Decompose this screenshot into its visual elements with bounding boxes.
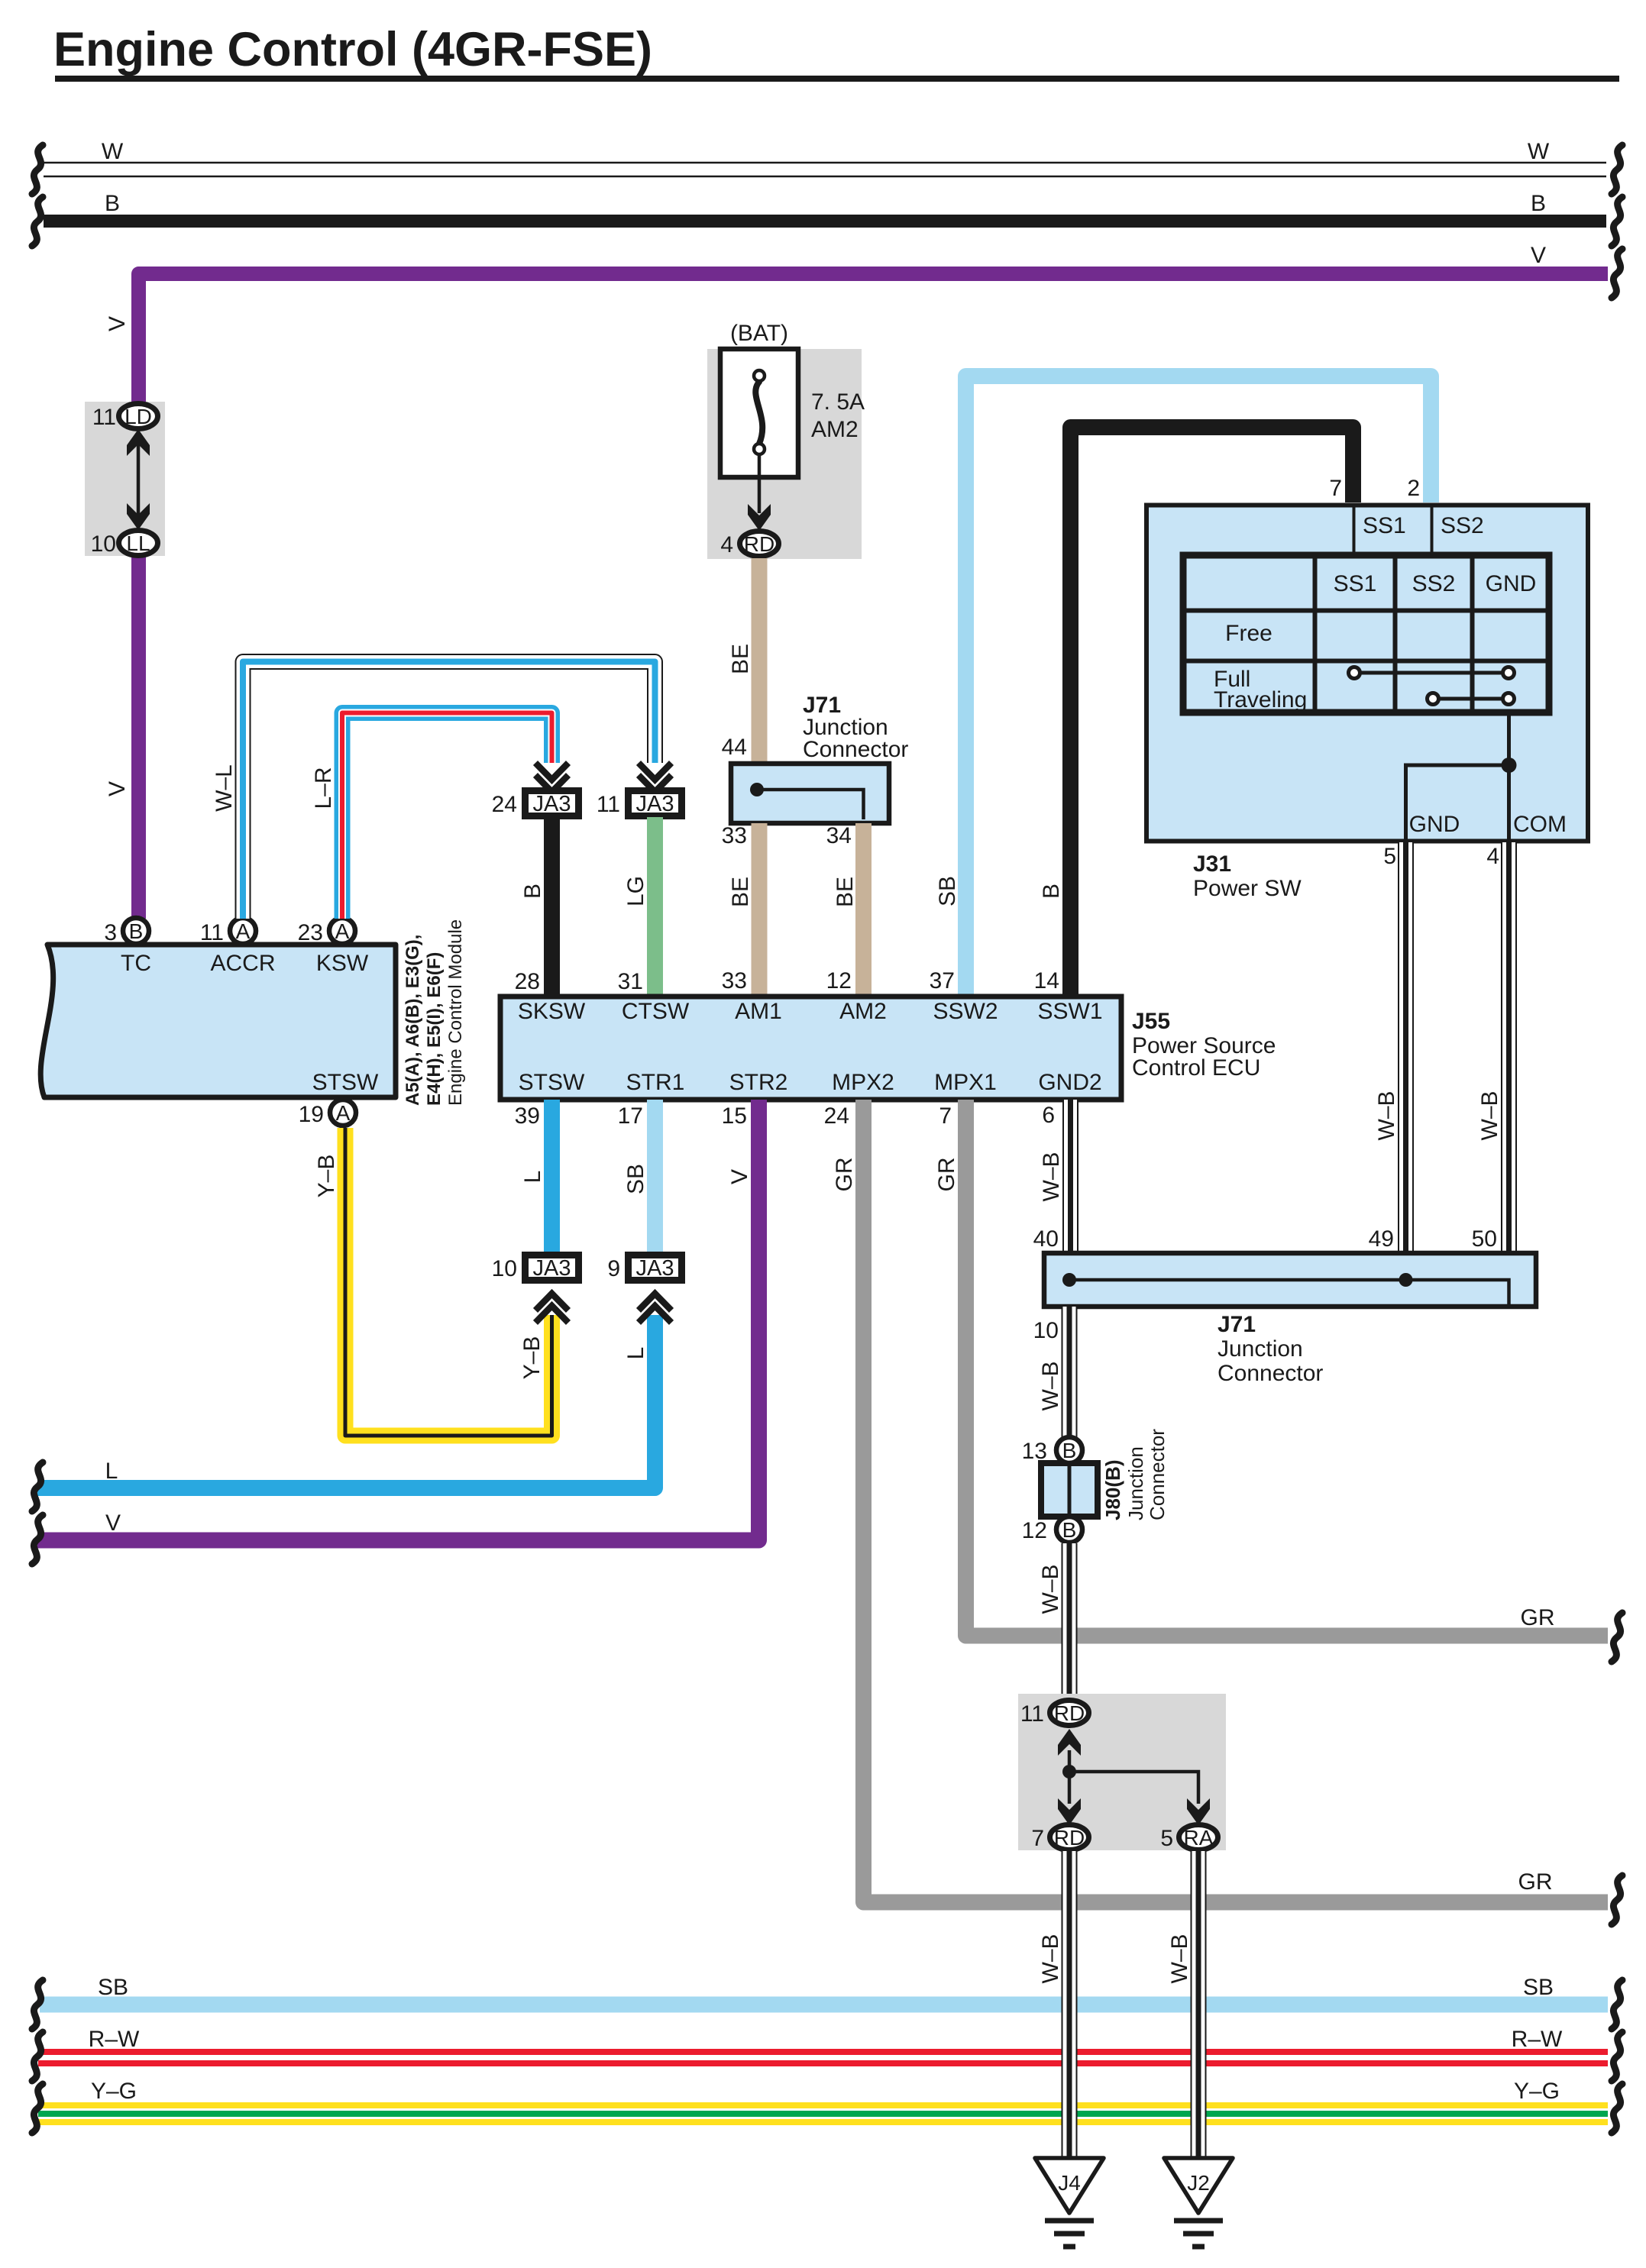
- svg-text:11: 11: [597, 792, 620, 817]
- svg-text:2: 2: [1407, 476, 1420, 501]
- svg-text:Connector: Connector: [1218, 1361, 1323, 1386]
- pin 3 B (TC): [104, 918, 149, 945]
- fuse AM2 symbol: [720, 349, 798, 477]
- wire + arrow from fuse to 4 RD: [748, 455, 771, 531]
- svg-text:RD: RD: [1054, 1701, 1085, 1725]
- wire L-R (blue/red from KSW to 24 JA3): [311, 713, 552, 919]
- svg-text:KSW: KSW: [316, 951, 369, 976]
- svg-text:TC: TC: [121, 951, 151, 976]
- svg-text:23: 23: [298, 920, 323, 945]
- svg-text:Junction: Junction: [1124, 1446, 1147, 1520]
- svg-text:GND2: GND2: [1038, 1070, 1101, 1095]
- title Engine Control (4GR-FSE): [53, 23, 1619, 82]
- svg-text:STR1: STR1: [626, 1070, 685, 1095]
- svg-text:4: 4: [1486, 844, 1499, 869]
- svg-text:A: A: [336, 1101, 351, 1125]
- svg-text:J71: J71: [1218, 1312, 1256, 1337]
- svg-text:Connector: Connector: [803, 737, 908, 762]
- arrow chevrons into 9 JA3: [639, 1294, 671, 1323]
- svg-text:10: 10: [1033, 1318, 1059, 1343]
- wire V (violet from J55 STR2 down and left): [32, 1100, 759, 1564]
- fuse 7.5A AM2 shaded panel: [707, 321, 865, 559]
- svg-text:Control ECU: Control ECU: [1132, 1055, 1260, 1081]
- ECU J55 Power Source Control box: [500, 997, 1276, 1100]
- svg-text:7: 7: [939, 1103, 952, 1129]
- svg-text:44: 44: [722, 735, 747, 760]
- svg-text:SS1: SS1: [1334, 571, 1377, 596]
- svg-text:SB: SB: [98, 1975, 128, 2000]
- svg-text:L: L: [623, 1347, 648, 1360]
- svg-text:B: B: [520, 884, 545, 899]
- svg-text:RD: RD: [744, 532, 774, 556]
- svg-text:CTSW: CTSW: [622, 999, 690, 1024]
- svg-text:10: 10: [492, 1256, 517, 1281]
- svg-text:W–L: W–L: [212, 764, 237, 812]
- svg-text:W–B: W–B: [1374, 1090, 1399, 1140]
- svg-text:SSW2: SSW2: [933, 999, 998, 1024]
- junction connector J80(B): [1041, 1429, 1169, 1520]
- svg-text:B: B: [105, 191, 120, 216]
- svg-text:A: A: [236, 919, 251, 943]
- svg-text:A: A: [335, 919, 350, 943]
- svg-text:JA3: JA3: [636, 1256, 674, 1281]
- wire W-B (J55 GND2 to J71 pin 40): [1033, 1100, 1071, 1253]
- wire R-W (bottom horizontal red/white): [32, 2027, 1622, 2081]
- arrow into 11 RD with junction to RD/RA: [1058, 1729, 1210, 1825]
- svg-text:SS2: SS2: [1412, 571, 1456, 596]
- svg-text:STSW: STSW: [312, 1070, 379, 1095]
- svg-text:50: 50: [1472, 1226, 1497, 1252]
- svg-text:R–W: R–W: [1512, 2027, 1563, 2052]
- svg-text:5: 5: [1160, 1826, 1173, 1851]
- wire GR (gray from MPX1 down and right): [934, 1100, 1622, 1662]
- svg-text:COM: COM: [1513, 812, 1567, 837]
- svg-text:15: 15: [722, 1103, 747, 1129]
- connector pin 10 LL: [91, 531, 158, 557]
- wire W (top horizontal white wire): [32, 139, 1622, 194]
- svg-text:19: 19: [299, 1102, 324, 1127]
- svg-text:40: 40: [1033, 1226, 1059, 1252]
- connector pin 5 RA: [1160, 1825, 1218, 1852]
- wire W-B (5 RA to ground J2): [1167, 1851, 1198, 2158]
- svg-text:E4(H), E5(I), E6(F): E4(H), E5(I), E6(F): [424, 952, 445, 1106]
- svg-text:STR2: STR2: [729, 1070, 788, 1095]
- pin 12 B (J80): [1022, 1517, 1082, 1543]
- svg-text:5: 5: [1383, 844, 1396, 869]
- wire V (violet: top horizontal + left vertical down to LD): [105, 243, 1622, 403]
- connector LD/LL shaded panel: [85, 402, 165, 556]
- svg-text:49: 49: [1369, 1226, 1394, 1252]
- contact line SS2-GND (Full Traveling): [1428, 693, 1515, 705]
- svg-text:L: L: [520, 1171, 545, 1184]
- svg-text:24: 24: [492, 792, 517, 817]
- svg-text:12: 12: [1022, 1518, 1047, 1543]
- svg-text:W–B: W–B: [1477, 1090, 1502, 1140]
- arrow chevrons into 24 JA3: [535, 763, 568, 792]
- svg-text:W: W: [102, 139, 124, 164]
- junction connector J71 (upper): [722, 693, 909, 848]
- svg-text:JA3: JA3: [533, 1256, 571, 1281]
- pin cell line SS1 (pin 7): [1354, 505, 1406, 557]
- ground J2: [1164, 2158, 1233, 2247]
- wire W-B (J71 pin 10 to J80 pin 13): [1033, 1307, 1069, 1439]
- svg-text:SB: SB: [935, 876, 960, 906]
- svg-text:STSW: STSW: [519, 1070, 585, 1095]
- svg-text:V: V: [105, 1510, 121, 1536]
- svg-text:34: 34: [826, 823, 852, 848]
- connector pin 11 RD: [1020, 1701, 1089, 1727]
- ECU A5/A6/E3-E6 Engine Control Module box: [40, 919, 466, 1106]
- svg-text:SB: SB: [1523, 1975, 1554, 2000]
- wire LG (green from 11 JA3 to CTSW): [618, 817, 655, 997]
- connector pin 7 RD: [1031, 1825, 1088, 1852]
- svg-text:GR: GR: [934, 1158, 959, 1192]
- svg-text:BE: BE: [728, 877, 753, 907]
- svg-text:Traveling: Traveling: [1214, 687, 1307, 712]
- wire L (blue from 9 JA3 down and left): [32, 1315, 655, 1511]
- svg-text:11: 11: [200, 920, 224, 945]
- wire W-B (J31 pin 4 COM to J71 pin 50): [1472, 842, 1509, 1253]
- svg-text:B: B: [1531, 191, 1546, 216]
- switch state table: [1183, 555, 1549, 712]
- svg-text:7: 7: [1031, 1826, 1044, 1851]
- pin 19 A (STSW): [299, 1100, 356, 1127]
- svg-text:Connector: Connector: [1146, 1429, 1169, 1520]
- svg-text:SS1: SS1: [1363, 513, 1406, 538]
- svg-text:17: 17: [618, 1103, 643, 1129]
- svg-text:A5(A), A6(B), E3(G),: A5(A), A6(B), E3(G),: [403, 935, 423, 1106]
- svg-text:V: V: [105, 781, 130, 796]
- svg-text:11: 11: [1020, 1701, 1044, 1727]
- svg-text:AM2: AM2: [839, 999, 887, 1024]
- svg-text:B: B: [129, 919, 144, 943]
- svg-text:6: 6: [1042, 1103, 1055, 1128]
- svg-text:W–B: W–B: [1038, 1361, 1063, 1410]
- svg-text:3: 3: [104, 920, 117, 945]
- svg-text:JA3: JA3: [636, 792, 674, 816]
- wire SB (light blue from J55 SSW2 to J31 pin 2): [930, 376, 1431, 997]
- connector pin 11 LD: [92, 404, 158, 431]
- connector 11 JA3: [597, 791, 682, 818]
- wire Y-B (yellow/black from ECM pin 19 to 10 JA3): [314, 1128, 552, 1436]
- svg-text:10: 10: [91, 531, 116, 557]
- svg-text:GR: GR: [1521, 1605, 1555, 1630]
- svg-text:24: 24: [824, 1103, 849, 1129]
- svg-text:GR: GR: [1518, 1869, 1553, 1895]
- wire B (black from 24 JA3 to SKSW): [515, 817, 552, 997]
- svg-text:33: 33: [722, 968, 747, 993]
- svg-text:13: 13: [1022, 1439, 1047, 1464]
- connector 24 JA3: [492, 791, 579, 818]
- wire B (black from J55 SSW1 to J31 pin 7): [1034, 428, 1353, 997]
- ground J4: [1035, 2158, 1104, 2247]
- svg-text:LL: LL: [126, 531, 150, 555]
- svg-text:39: 39: [515, 1103, 540, 1129]
- svg-text:J31: J31: [1193, 851, 1231, 877]
- svg-text:12: 12: [826, 968, 852, 993]
- wire W-B (7 RD to ground J4): [1038, 1851, 1069, 2158]
- wire BE (J71 pin 33 to J55 AM1): [722, 823, 759, 997]
- svg-text:MPX2: MPX2: [832, 1070, 894, 1095]
- svg-text:W–B: W–B: [1167, 1934, 1192, 1983]
- svg-text:BE: BE: [833, 877, 858, 907]
- wire BE (beige from 4 RD to J71 pin 44): [722, 558, 759, 764]
- svg-text:Free: Free: [1225, 621, 1272, 646]
- svg-text:L: L: [105, 1459, 118, 1484]
- svg-text:Engine Control Module: Engine Control Module: [445, 919, 466, 1106]
- svg-text:AM2: AM2: [811, 417, 859, 442]
- svg-text:Y–G: Y–G: [91, 2079, 137, 2104]
- wire Y-G (bottom horizontal yellow/green): [32, 2079, 1622, 2133]
- wire W-B (J31 pin 5 GND to J71 pin 49): [1369, 842, 1406, 1253]
- svg-text:BE: BE: [728, 644, 753, 674]
- wire B (top horizontal black wire): [32, 191, 1622, 246]
- svg-text:J80(B): J80(B): [1101, 1460, 1124, 1520]
- internal GND/COM wiring with junction: [1406, 712, 1567, 839]
- power switch J31 box: [1146, 506, 1588, 902]
- svg-text:Y–B: Y–B: [314, 1155, 339, 1198]
- svg-text:J55: J55: [1132, 1009, 1170, 1034]
- svg-text:Y–G: Y–G: [1514, 2079, 1560, 2104]
- svg-text:V: V: [1531, 243, 1546, 268]
- svg-text:31: 31: [618, 969, 643, 994]
- contact line SS1-GND (Full Traveling): [1349, 667, 1515, 679]
- svg-text:RA: RA: [1184, 1826, 1214, 1850]
- svg-text:W–B: W–B: [1039, 1152, 1064, 1201]
- pin 23 A (KSW): [298, 918, 355, 945]
- wire SB (light blue from J55 STR1 to 9 JA3): [618, 1100, 655, 1254]
- wire BE (J71 pin 34 to J55 AM2): [826, 823, 864, 997]
- svg-text:ACCR: ACCR: [210, 951, 275, 976]
- svg-text:SS2: SS2: [1441, 513, 1484, 538]
- svg-text:37: 37: [930, 968, 955, 993]
- svg-text:J2: J2: [1187, 2171, 1210, 2195]
- svg-text:Junction: Junction: [1218, 1336, 1303, 1362]
- connector 9 JA3: [607, 1255, 681, 1282]
- svg-text:W–B: W–B: [1038, 1564, 1063, 1614]
- svg-text:(BAT): (BAT): [730, 321, 788, 346]
- svg-text:RD: RD: [1054, 1826, 1085, 1850]
- svg-text:R–W: R–W: [89, 2027, 140, 2052]
- svg-text:LD: LD: [125, 405, 152, 428]
- connector pin 4 RD: [720, 531, 778, 558]
- arrow chevrons into 11 JA3: [639, 763, 671, 792]
- svg-text:14: 14: [1034, 968, 1059, 993]
- wire GR (gray from MPX2 down and right): [824, 1100, 1622, 1924]
- svg-text:7: 7: [1329, 476, 1342, 501]
- svg-text:SSW1: SSW1: [1037, 999, 1102, 1024]
- svg-text:LG: LG: [623, 876, 648, 906]
- pin 13 B (J80): [1022, 1437, 1082, 1464]
- svg-text:11: 11: [92, 405, 116, 430]
- svg-text:B: B: [1039, 884, 1064, 899]
- svg-text:7. 5A: 7. 5A: [811, 389, 865, 415]
- svg-text:B: B: [1062, 1439, 1077, 1462]
- svg-text:GND: GND: [1486, 571, 1537, 596]
- svg-text:33: 33: [722, 823, 747, 848]
- svg-text:28: 28: [515, 969, 540, 994]
- svg-text:JA3: JA3: [533, 792, 571, 816]
- wire SB (bottom horizontal light blue): [32, 1975, 1622, 2029]
- svg-text:SB: SB: [623, 1164, 648, 1194]
- arrow chevrons into 10 JA3: [535, 1294, 568, 1323]
- svg-text:SKSW: SKSW: [518, 999, 586, 1024]
- svg-text:Y–B: Y–B: [519, 1336, 545, 1380]
- pin cell line SS2 (pin 2): [1432, 505, 1484, 557]
- svg-text:V: V: [727, 1169, 752, 1184]
- arrow between LD and LL: [127, 429, 150, 530]
- connector 10 JA3: [492, 1255, 579, 1282]
- wire L (blue from J55 STSW to 10 JA3): [515, 1100, 552, 1254]
- svg-text:Power SW: Power SW: [1193, 876, 1302, 901]
- svg-text:W–B: W–B: [1038, 1934, 1063, 1983]
- wire W-B (J80 pin 12 to 11 RD): [1038, 1543, 1069, 1700]
- svg-text:MPX1: MPX1: [934, 1070, 997, 1095]
- svg-text:GR: GR: [832, 1158, 857, 1192]
- svg-text:J4: J4: [1058, 2171, 1081, 2195]
- svg-text:Engine Control (4GR-FSE): Engine Control (4GR-FSE): [53, 23, 652, 76]
- pin 11 A (ACCR): [200, 918, 256, 945]
- svg-text:AM1: AM1: [735, 999, 782, 1024]
- svg-text:W: W: [1528, 139, 1550, 164]
- svg-text:B: B: [1062, 1518, 1077, 1542]
- wire W-L (white/blue from ACCR to 11 JA3): [212, 662, 655, 919]
- svg-text:GND: GND: [1409, 812, 1460, 837]
- junction connector J71 (lower): [1044, 1253, 1536, 1386]
- svg-text:9: 9: [607, 1256, 620, 1281]
- connector RD/RA shaded panel: [1018, 1694, 1226, 1850]
- svg-text:V: V: [105, 316, 130, 331]
- svg-text:L–R: L–R: [311, 767, 336, 809]
- svg-text:4: 4: [720, 532, 733, 557]
- wire V (segment LL to ECM pin TC): [105, 556, 139, 919]
